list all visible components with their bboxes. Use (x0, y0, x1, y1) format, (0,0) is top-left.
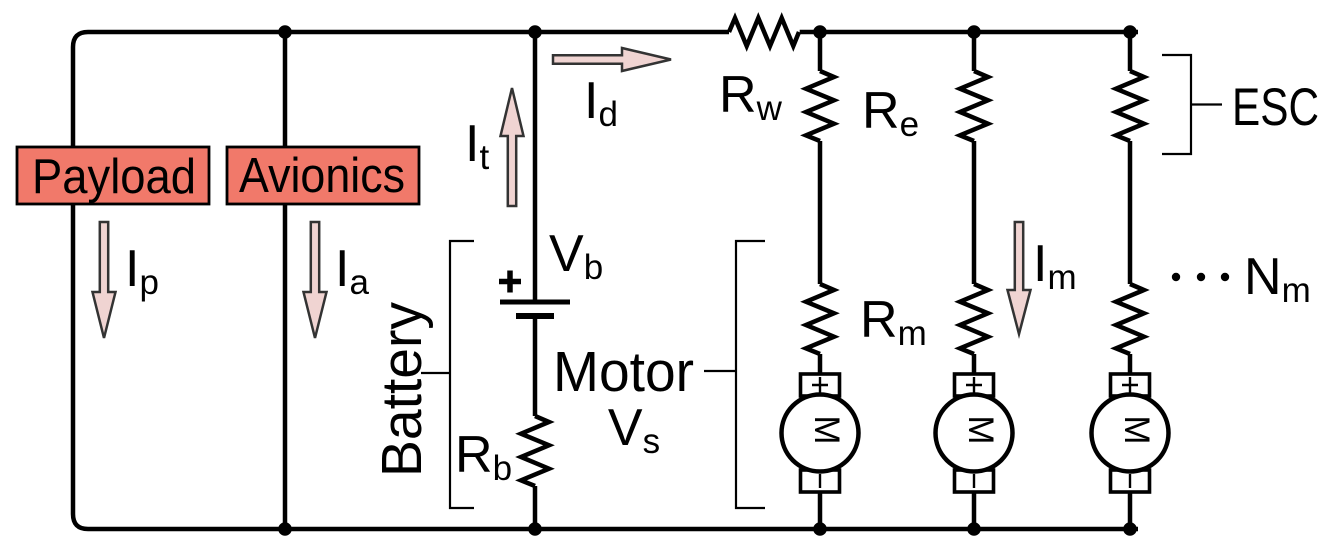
svg-text:Payload: Payload (32, 150, 196, 204)
svg-text:Battery: Battery (370, 302, 434, 477)
svg-text:ESC: ESC (1232, 78, 1319, 137)
svg-text:Motor: Motor (553, 340, 694, 404)
svg-text:Avionics: Avionics (239, 149, 405, 203)
